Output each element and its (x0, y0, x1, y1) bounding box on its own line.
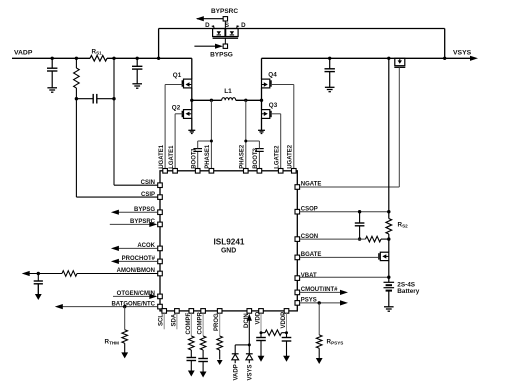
svg-text:VBAT: VBAT (301, 273, 317, 279)
svg-text:LGATE2: LGATE2 (275, 145, 281, 169)
svg-text:Q2: Q2 (172, 104, 181, 111)
svg-text:CSIN: CSIN (141, 180, 155, 186)
svg-text:UGATE1: UGATE1 (159, 144, 165, 169)
svg-text:Q4: Q4 (268, 72, 277, 79)
svg-text:RPSYS: RPSYS (327, 338, 344, 345)
svg-text:BOOT2: BOOT2 (253, 147, 259, 168)
svg-text:VADP: VADP (14, 50, 33, 57)
svg-text:RS2: RS2 (398, 222, 409, 229)
svg-text:BYPSG: BYPSG (210, 52, 233, 59)
svg-text:D: D (241, 22, 246, 29)
svg-text:Battery: Battery (397, 288, 419, 295)
svg-text:Q1: Q1 (173, 72, 182, 79)
svg-text:PHASE2: PHASE2 (240, 144, 246, 169)
svg-text:RTHM: RTHM (105, 339, 120, 346)
svg-text:VSYS: VSYS (453, 50, 472, 57)
svg-text:VSYS: VSYS (248, 364, 254, 380)
svg-text:RS1: RS1 (92, 49, 103, 56)
svg-text:D: D (205, 22, 210, 29)
svg-text:PHASE1: PHASE1 (205, 144, 211, 169)
svg-text:GND: GND (221, 248, 236, 255)
svg-text:LGATE1: LGATE1 (169, 145, 175, 169)
svg-text:BOOT1: BOOT1 (192, 147, 198, 168)
svg-text:S: S (225, 22, 229, 29)
svg-text:UGATE2: UGATE2 (288, 144, 294, 169)
svg-text:L1: L1 (224, 88, 232, 95)
svg-text:CSIP: CSIP (141, 192, 155, 198)
svg-text:Q3: Q3 (269, 102, 278, 109)
svg-text:VADP: VADP (234, 364, 240, 380)
svg-text:BYPSRC: BYPSRC (211, 8, 238, 15)
svg-text:ISL9241: ISL9241 (214, 237, 245, 246)
